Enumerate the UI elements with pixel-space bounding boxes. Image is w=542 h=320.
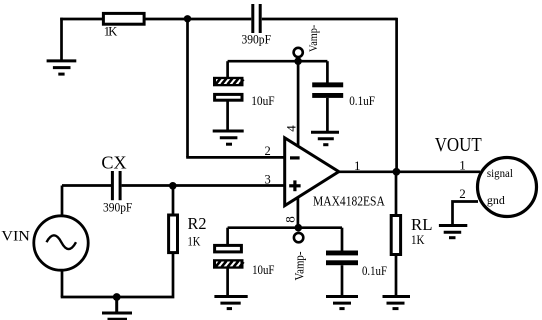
capacitor 10uF (bottom, polarized) xyxy=(213,228,275,277)
svg-text:VIN: VIN xyxy=(1,229,30,245)
wire 10uF top to ground xyxy=(226,100,229,130)
wire pin 2 (inverting input) xyxy=(186,156,285,159)
node junction feedback / inverting input xyxy=(184,15,191,22)
svg-text:Vamp-: Vamp- xyxy=(306,25,320,52)
wire feedback right vertical xyxy=(395,18,398,172)
svg-text:2: 2 xyxy=(459,186,466,201)
node junction bottom ground xyxy=(113,293,121,301)
ground (top-left) xyxy=(47,61,77,74)
wire capacitor 390pF to top-right corner xyxy=(262,18,397,21)
svg-text:0.1uF: 0.1uF xyxy=(362,263,387,278)
wire pin 3 (non-inverting input) xyxy=(172,184,285,187)
svg-text:CX: CX xyxy=(101,153,126,173)
svg-text:gnd: gnd xyxy=(487,193,505,207)
terminal Vamp- (top) xyxy=(294,25,320,57)
svg-text:1K: 1K xyxy=(188,233,201,248)
svg-text:1K: 1K xyxy=(104,24,118,38)
capacitor CX 390pF xyxy=(101,153,132,215)
svg-text:390pF: 390pF xyxy=(103,199,132,214)
svg-text:390pF: 390pF xyxy=(242,31,272,46)
svg-text:signal: signal xyxy=(487,168,513,180)
wire 10uF bottom to ground xyxy=(226,268,229,296)
svg-text:Vamp-: Vamp- xyxy=(292,252,306,281)
resistor RL 1K xyxy=(391,172,432,255)
ground (10uF bottom) xyxy=(214,297,247,309)
svg-text:8: 8 xyxy=(283,216,298,223)
svg-text:1K: 1K xyxy=(411,232,425,247)
ground (VIN bottom) xyxy=(102,297,132,319)
capacitor 390pF (feedback) xyxy=(242,4,272,46)
node Vamp- bottom junction xyxy=(295,224,303,232)
resistor R2 1K xyxy=(169,186,207,253)
wire from ground corner to resistor 1K xyxy=(60,18,102,21)
wire pin 8 stem xyxy=(297,198,300,228)
svg-text:2: 2 xyxy=(265,144,271,158)
wire 0.1uF bottom to ground xyxy=(341,265,344,296)
svg-text:0.1uF: 0.1uF xyxy=(349,93,375,108)
wire bottom return xyxy=(61,254,173,297)
svg-text:10uF: 10uF xyxy=(252,262,274,277)
ground (connector) xyxy=(439,226,467,238)
op-amp U1 MAX4182ESA xyxy=(285,138,386,210)
node Vamp- top junction xyxy=(294,57,302,65)
node junction CX / R2 xyxy=(169,182,177,190)
wire pin 1 (output) xyxy=(339,170,480,173)
svg-text:10uF: 10uF xyxy=(251,93,274,108)
svg-text:MAX4182ESA: MAX4182ESA xyxy=(313,195,386,210)
resistor 1K (top) xyxy=(103,13,144,38)
wire VIN bottom stem xyxy=(61,271,64,297)
capacitor 10uF (top, polarized) xyxy=(213,61,275,108)
ground (RL) xyxy=(383,297,411,309)
connector VOUT (signal/gnd) xyxy=(478,158,537,217)
ground (10uF top) xyxy=(213,131,244,144)
node junction output / RL / feedback xyxy=(393,168,401,176)
wire VIN top stem xyxy=(61,186,64,215)
terminal Vamp- (bottom) xyxy=(292,233,306,281)
wire capacitor CX to junction xyxy=(122,184,173,187)
ground (0.1uF top) xyxy=(311,132,339,145)
wire RL to ground xyxy=(395,256,398,296)
wire VIN top to capacitor CX xyxy=(62,184,111,187)
wire 0.1uF top to ground xyxy=(326,98,329,131)
svg-text:4: 4 xyxy=(283,125,298,132)
svg-text:1: 1 xyxy=(354,158,361,173)
wire pin 4 stem xyxy=(297,61,300,147)
wire connector gnd pin xyxy=(453,202,479,225)
capacitor 0.1uF (bottom) xyxy=(326,228,387,278)
svg-text:1: 1 xyxy=(459,158,466,173)
svg-text:R2: R2 xyxy=(188,214,207,233)
svg-text:3: 3 xyxy=(265,173,271,187)
svg-text:VOUT: VOUT xyxy=(435,134,482,156)
wire top supply rail xyxy=(228,60,328,63)
wire resistor 1K to capacitor 390pF xyxy=(146,18,252,21)
wire inverting branch vertical xyxy=(186,19,189,158)
capacitor 0.1uF (top) xyxy=(312,61,375,108)
source VIN xyxy=(1,216,88,270)
wire ground stem top-left xyxy=(60,18,63,60)
ground (0.1uF bottom) xyxy=(326,297,358,309)
wire bottom supply rail xyxy=(228,226,342,229)
